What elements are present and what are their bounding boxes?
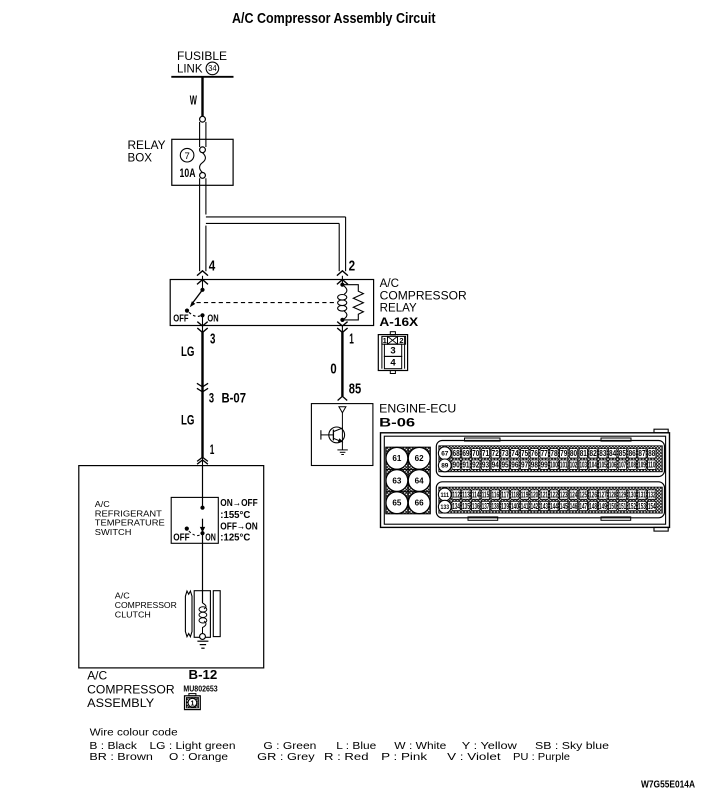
ECU pin 89 bbox=[438, 459, 451, 472]
svg-text:144: 144 bbox=[550, 502, 558, 511]
ECU pin 93 bbox=[481, 460, 489, 469]
ECU pin 115 bbox=[481, 490, 489, 499]
ECU pin 72 bbox=[491, 449, 499, 458]
connector A-16X pinout bbox=[390, 332, 395, 335]
ECU pin 136 bbox=[472, 501, 480, 510]
svg-text:106: 106 bbox=[609, 461, 617, 470]
svg-text:94: 94 bbox=[492, 461, 500, 470]
ECU pin 119 bbox=[520, 490, 528, 499]
svg-text:107: 107 bbox=[619, 461, 627, 470]
terminal arrow into ECU bbox=[338, 396, 348, 400]
ECU pin 139 bbox=[501, 501, 509, 510]
svg-text:153: 153 bbox=[638, 502, 646, 511]
svg-text:73: 73 bbox=[501, 449, 509, 458]
ECU pin 122 bbox=[550, 490, 558, 499]
svg-text:131: 131 bbox=[638, 491, 646, 500]
svg-text:134: 134 bbox=[452, 502, 460, 511]
ECU pin 131 bbox=[638, 490, 646, 499]
ECU pin 123 bbox=[560, 490, 568, 499]
svg-text:LG: LG bbox=[181, 343, 195, 359]
ECU pin 112 bbox=[452, 490, 460, 499]
svg-text:SWITCH: SWITCH bbox=[95, 527, 132, 537]
svg-text:146: 146 bbox=[570, 502, 578, 511]
svg-text:62: 62 bbox=[415, 454, 425, 463]
ECU pin 95 bbox=[501, 460, 509, 469]
svg-text:151: 151 bbox=[619, 502, 627, 511]
ECU pin 87 bbox=[638, 449, 646, 458]
ECU pin 108 bbox=[628, 460, 636, 469]
svg-text:CLUTCH: CLUTCH bbox=[115, 610, 151, 620]
wire O from relay pin 1 to ECU bbox=[341, 332, 343, 396]
relay switch dashed OFF-ON throw bbox=[189, 312, 201, 316]
wire W from fusible link bbox=[201, 77, 203, 117]
svg-text:0: 0 bbox=[330, 361, 336, 377]
ECU pin 107 bbox=[618, 460, 626, 469]
svg-text:108: 108 bbox=[628, 461, 636, 470]
svg-text:O : Orange: O : Orange bbox=[169, 752, 229, 763]
fusible link 34 circle bbox=[206, 62, 219, 75]
ECU pin 110 bbox=[648, 460, 656, 469]
svg-text:G : Green: G : Green bbox=[263, 741, 316, 752]
ECU pin 145 bbox=[560, 501, 568, 510]
ECU pin 138 bbox=[491, 501, 499, 510]
svg-text:89: 89 bbox=[441, 463, 448, 470]
relay coil bbox=[340, 283, 344, 287]
ECU pin 128 bbox=[608, 490, 616, 499]
ECU pin 135 bbox=[462, 501, 470, 510]
svg-text:A-16X: A-16X bbox=[379, 315, 418, 329]
svg-text:70: 70 bbox=[472, 449, 480, 458]
svg-text:82: 82 bbox=[589, 449, 597, 458]
svg-text:119: 119 bbox=[521, 491, 529, 500]
ECU pin 130 bbox=[628, 490, 636, 499]
ECU pin 133 bbox=[438, 500, 451, 513]
A-16X blocked cell bbox=[388, 336, 398, 344]
svg-text:124: 124 bbox=[570, 491, 578, 500]
ECU pin 79 bbox=[560, 449, 568, 458]
ECU pin 142 bbox=[530, 501, 538, 510]
ECU pin 106 bbox=[608, 460, 616, 469]
svg-text:136: 136 bbox=[472, 502, 480, 511]
svg-text:76: 76 bbox=[531, 449, 539, 458]
ECU pin 64 bbox=[408, 470, 430, 492]
svg-text:FUSIBLE: FUSIBLE bbox=[177, 51, 227, 63]
ECU pin 127 bbox=[599, 490, 607, 499]
svg-text:ON: ON bbox=[207, 314, 218, 325]
wire pin 1 out of relay bbox=[341, 326, 343, 333]
svg-text:84: 84 bbox=[609, 449, 617, 458]
svg-text:W: W bbox=[190, 92, 198, 107]
svg-text:85: 85 bbox=[349, 381, 361, 398]
svg-text:86: 86 bbox=[629, 449, 637, 458]
ECU pin 65 bbox=[386, 492, 408, 514]
svg-text:112: 112 bbox=[452, 491, 460, 500]
ECU pin 76 bbox=[530, 449, 538, 458]
ECU pin 98 bbox=[530, 460, 538, 469]
svg-text:101: 101 bbox=[560, 461, 568, 470]
ECU pin 147 bbox=[579, 501, 587, 510]
svg-text:1: 1 bbox=[349, 332, 354, 348]
fusible link bus bar bbox=[171, 76, 233, 78]
svg-text:W7G55E014A: W7G55E014A bbox=[641, 778, 695, 790]
relay switch arm bbox=[191, 290, 202, 305]
svg-text:121: 121 bbox=[540, 491, 548, 500]
svg-text:66: 66 bbox=[415, 499, 425, 508]
ECU pin 99 bbox=[540, 460, 548, 469]
temp switch dashed throw bbox=[189, 531, 201, 536]
svg-text:99: 99 bbox=[541, 461, 549, 470]
svg-text:150: 150 bbox=[609, 502, 617, 511]
svg-text:Y : Yellow: Y : Yellow bbox=[462, 741, 518, 752]
svg-text:B-12: B-12 bbox=[189, 667, 218, 682]
svg-text:111: 111 bbox=[441, 492, 450, 499]
ECU pin 90 bbox=[452, 460, 460, 469]
svg-text:127: 127 bbox=[599, 491, 607, 500]
svg-text:100: 100 bbox=[550, 461, 558, 470]
ECU pin 77 bbox=[540, 449, 548, 458]
relay switch OFF contact bbox=[185, 309, 189, 313]
terminal arrow at relay pin 2 bbox=[337, 271, 348, 276]
svg-text:129: 129 bbox=[619, 491, 627, 500]
svg-text:93: 93 bbox=[482, 461, 490, 470]
svg-text:116: 116 bbox=[491, 491, 499, 500]
A-16X pin 1 cell bbox=[382, 336, 388, 344]
compressor clutch pulley (left) bbox=[185, 591, 192, 637]
ECU pin 75 bbox=[520, 449, 528, 458]
svg-text:110: 110 bbox=[648, 461, 656, 470]
svg-text:64: 64 bbox=[415, 476, 425, 485]
svg-text:81: 81 bbox=[580, 449, 588, 458]
fuse 10A bbox=[200, 147, 206, 153]
svg-text:154: 154 bbox=[648, 502, 656, 511]
svg-text:B-07: B-07 bbox=[222, 391, 247, 406]
svg-text:143: 143 bbox=[540, 502, 548, 511]
svg-text:104: 104 bbox=[589, 461, 597, 470]
svg-text:92: 92 bbox=[472, 461, 480, 470]
svg-text:R : Red: R : Red bbox=[324, 752, 369, 763]
svg-text:130: 130 bbox=[628, 491, 636, 500]
terminal arrow at relay pin 4 bbox=[197, 271, 208, 276]
svg-text:B-06: B-06 bbox=[379, 417, 415, 429]
svg-text:80: 80 bbox=[570, 449, 578, 458]
ECU pin 129 bbox=[618, 490, 626, 499]
ECU pin 125 bbox=[579, 490, 587, 499]
ECU pin 143 bbox=[540, 501, 548, 510]
ECU pin 146 bbox=[569, 501, 577, 510]
svg-text:145: 145 bbox=[560, 502, 568, 511]
svg-text:3: 3 bbox=[210, 331, 215, 347]
ECU pin 78 bbox=[550, 449, 558, 458]
ECU pin 150 bbox=[608, 501, 616, 510]
svg-text:3: 3 bbox=[209, 390, 214, 406]
A-16X pin 2 cell bbox=[398, 336, 406, 344]
svg-text:4: 4 bbox=[390, 358, 396, 369]
clutch terminal ring bbox=[200, 634, 206, 640]
svg-text:RELAY: RELAY bbox=[128, 140, 166, 152]
ECU pin 94 bbox=[491, 460, 499, 469]
svg-text:W : White: W : White bbox=[394, 741, 447, 752]
inline connector B-07 chevrons bbox=[197, 383, 208, 387]
svg-text:139: 139 bbox=[501, 502, 509, 511]
ECU pin 116 bbox=[491, 490, 499, 499]
ECU pin 100 bbox=[550, 460, 558, 469]
svg-text:97: 97 bbox=[521, 461, 528, 470]
wire from temp switch to clutch bbox=[202, 535, 204, 603]
svg-text:1: 1 bbox=[210, 441, 215, 457]
svg-text:85: 85 bbox=[619, 449, 627, 458]
ECU pin 102 bbox=[569, 460, 577, 469]
ECU pin 140 bbox=[511, 501, 519, 510]
svg-text:V : Violet: V : Violet bbox=[447, 752, 501, 763]
ECU pin 124 bbox=[569, 490, 577, 499]
svg-text:114: 114 bbox=[472, 491, 480, 500]
ECU pin 141 bbox=[520, 501, 528, 510]
ECU pin 67 bbox=[438, 447, 451, 460]
svg-text:A/C Compressor Assembly Circui: A/C Compressor Assembly Circuit bbox=[232, 11, 436, 27]
svg-text::155°C: :155°C bbox=[220, 509, 250, 521]
connector junction circle bbox=[200, 116, 206, 122]
svg-text:72: 72 bbox=[492, 449, 500, 458]
A/C compressor relay box A-16X bbox=[170, 280, 373, 326]
svg-text:4: 4 bbox=[209, 258, 216, 274]
ECU pin 104 bbox=[589, 460, 597, 469]
A/C compressor assembly box bbox=[79, 466, 264, 668]
svg-text:128: 128 bbox=[609, 491, 617, 500]
A-16X pin 4 cell bbox=[384, 356, 401, 368]
ECU pin 63 bbox=[386, 470, 408, 492]
wire (double line) from fuse to pin 4 bbox=[199, 178, 201, 271]
ECU connector strip 111-154 bbox=[436, 482, 664, 518]
part icon bbox=[189, 694, 196, 696]
ground in ECU bbox=[337, 449, 347, 451]
ECU pin 97 bbox=[520, 460, 528, 469]
svg-text:133: 133 bbox=[441, 504, 450, 511]
svg-text:ON: ON bbox=[205, 531, 216, 543]
ECU pin 114 bbox=[472, 490, 480, 499]
svg-text:90: 90 bbox=[453, 461, 461, 470]
dashed mechanical link to coil bbox=[197, 302, 337, 304]
svg-text::125°C: :125°C bbox=[220, 531, 250, 543]
A-16X pin 3 cell bbox=[384, 344, 401, 356]
svg-text:91: 91 bbox=[462, 461, 470, 470]
svg-text:7: 7 bbox=[184, 151, 189, 162]
svg-text:135: 135 bbox=[462, 502, 470, 511]
svg-text:148: 148 bbox=[589, 502, 597, 511]
svg-text:3: 3 bbox=[390, 345, 395, 356]
svg-text:L : Blue: L : Blue bbox=[336, 741, 377, 752]
ECU pin 61 bbox=[386, 447, 408, 469]
svg-text:117: 117 bbox=[501, 491, 509, 500]
svg-text:141: 141 bbox=[521, 502, 529, 511]
svg-text:67: 67 bbox=[441, 451, 448, 458]
temp switch OFF contact bbox=[185, 527, 189, 531]
svg-text:34: 34 bbox=[208, 64, 217, 73]
svg-text:B : Black: B : Black bbox=[89, 741, 138, 752]
temp switch ON contact bbox=[200, 531, 204, 535]
svg-text:ASSEMBLY: ASSEMBLY bbox=[87, 696, 154, 710]
svg-text:137: 137 bbox=[482, 502, 490, 511]
wire pin 3 out of relay bbox=[202, 326, 204, 333]
ECU pin 91 bbox=[462, 460, 470, 469]
relay box circled 7 bbox=[180, 148, 194, 162]
svg-text:142: 142 bbox=[531, 502, 539, 511]
svg-text:123: 123 bbox=[560, 491, 568, 500]
svg-text:122: 122 bbox=[550, 491, 558, 500]
svg-text:1: 1 bbox=[190, 700, 194, 707]
ECU pin 113 bbox=[462, 490, 470, 499]
svg-text:132: 132 bbox=[648, 491, 656, 500]
svg-text:63: 63 bbox=[392, 476, 402, 485]
svg-text:LG: LG bbox=[181, 412, 195, 428]
ECU pin 126 bbox=[589, 490, 597, 499]
svg-text:95: 95 bbox=[501, 461, 509, 470]
svg-text:152: 152 bbox=[628, 502, 636, 511]
svg-text:LINK: LINK bbox=[177, 64, 203, 76]
ECU pin 69 bbox=[462, 449, 470, 458]
svg-text:LG : Light green: LG : Light green bbox=[150, 741, 236, 752]
svg-text:147: 147 bbox=[579, 502, 587, 511]
ECU pin 66 bbox=[408, 492, 430, 514]
ECU pin 103 bbox=[579, 460, 587, 469]
ECU pin 74 bbox=[511, 449, 519, 458]
svg-text:149: 149 bbox=[599, 502, 607, 511]
ECU pin 134 bbox=[452, 501, 460, 510]
svg-text:71: 71 bbox=[482, 449, 490, 458]
ECU connector block outer housing bbox=[654, 429, 668, 433]
relay coil resistor (parallel) bbox=[342, 285, 363, 320]
temp switch throw arrow bbox=[202, 519, 204, 528]
svg-text:GR : Grey: GR : Grey bbox=[257, 752, 315, 763]
svg-text:A/C: A/C bbox=[95, 499, 110, 509]
svg-text:COMPRESSOR: COMPRESSOR bbox=[115, 600, 177, 610]
ECU pin 81 bbox=[579, 449, 587, 458]
ECU pin 153 bbox=[638, 501, 646, 510]
svg-text:61: 61 bbox=[392, 454, 402, 463]
svg-text:RELAY: RELAY bbox=[380, 303, 417, 315]
svg-text:2: 2 bbox=[349, 258, 356, 274]
svg-text:A/C: A/C bbox=[115, 591, 130, 601]
svg-text:A/C: A/C bbox=[87, 669, 107, 683]
ECU pin 149 bbox=[599, 501, 607, 510]
svg-text:P : Pink: P : Pink bbox=[381, 752, 428, 763]
svg-text:BR : Brown: BR : Brown bbox=[89, 752, 152, 763]
ECU pin 62 bbox=[408, 447, 430, 469]
svg-text:105: 105 bbox=[599, 461, 607, 470]
ECU pin 83 bbox=[599, 449, 607, 458]
ECU pin 109 bbox=[638, 460, 646, 469]
svg-text:SB : Sky blue: SB : Sky blue bbox=[535, 741, 610, 752]
svg-text:74: 74 bbox=[511, 449, 519, 458]
svg-text:115: 115 bbox=[482, 491, 490, 500]
transistor Q1 bbox=[329, 427, 345, 443]
ECU pin 132 bbox=[648, 490, 656, 499]
ECU pin 70 bbox=[472, 449, 480, 458]
ECU pin 82 bbox=[589, 449, 597, 458]
ECU pin 111 bbox=[438, 488, 451, 501]
ECU pin 96 bbox=[511, 460, 519, 469]
svg-text:79: 79 bbox=[560, 449, 568, 458]
ECU pin 120 bbox=[530, 490, 538, 499]
svg-text:77: 77 bbox=[541, 449, 548, 458]
assembly entry chevrons bbox=[197, 457, 208, 461]
ECU pin 68 bbox=[452, 449, 460, 458]
svg-text:ENGINE-ECU: ENGINE-ECU bbox=[379, 404, 456, 416]
compressor clutch coil housing bbox=[194, 591, 210, 638]
connector latch bumps bbox=[465, 438, 501, 441]
svg-text:109: 109 bbox=[638, 461, 646, 470]
svg-text:118: 118 bbox=[511, 491, 519, 500]
svg-text:87: 87 bbox=[638, 449, 645, 458]
refrigerant temperature switch box bbox=[171, 497, 218, 543]
temp switch top contact bbox=[200, 506, 204, 510]
wire LG from relay pin 3 bbox=[201, 332, 203, 457]
svg-text:103: 103 bbox=[579, 461, 587, 470]
svg-text:69: 69 bbox=[462, 449, 470, 458]
ECU input triangle bbox=[339, 407, 346, 413]
ECU connector strip 67-110 bbox=[436, 441, 664, 477]
svg-text:OFF: OFF bbox=[173, 314, 188, 325]
svg-text:113: 113 bbox=[462, 491, 470, 500]
svg-text:65: 65 bbox=[392, 499, 402, 508]
ECU pin 73 bbox=[501, 449, 509, 458]
svg-text:140: 140 bbox=[511, 502, 519, 511]
svg-text:102: 102 bbox=[570, 461, 578, 470]
relay switch contact from pin 4 bbox=[200, 288, 204, 292]
ECU pin 105 bbox=[599, 460, 607, 469]
svg-text:A/C: A/C bbox=[380, 278, 399, 290]
ECU pin 151 bbox=[618, 501, 626, 510]
ECU pin 137 bbox=[481, 501, 489, 510]
ECU pin 152 bbox=[628, 501, 636, 510]
ECU pin 121 bbox=[540, 490, 548, 499]
wire inside assembly (top) bbox=[202, 466, 204, 508]
svg-text:126: 126 bbox=[589, 491, 597, 500]
clutch right plate bbox=[213, 591, 220, 637]
svg-text:83: 83 bbox=[599, 449, 607, 458]
compressor clutch coil bbox=[203, 603, 206, 609]
relay switch ON contact bbox=[200, 313, 204, 317]
connector round-pin grid 61-66 bbox=[386, 447, 431, 514]
svg-text:75: 75 bbox=[521, 449, 529, 458]
svg-text:98: 98 bbox=[531, 461, 539, 470]
svg-text:78: 78 bbox=[550, 449, 558, 458]
svg-text:120: 120 bbox=[531, 491, 539, 500]
svg-text:68: 68 bbox=[453, 449, 461, 458]
svg-text:138: 138 bbox=[491, 502, 499, 511]
svg-text:10A: 10A bbox=[180, 168, 196, 180]
ECU pin 88 bbox=[648, 449, 656, 458]
ECU pin 84 bbox=[608, 449, 616, 458]
svg-text:96: 96 bbox=[511, 461, 519, 470]
ECU pin 85 bbox=[618, 449, 626, 458]
ECU pin 148 bbox=[589, 501, 597, 510]
ECU pin 80 bbox=[569, 449, 577, 458]
wire (double line) branch to pin 2 bbox=[206, 216, 346, 218]
ECU pin 86 bbox=[628, 449, 636, 458]
wire (double line) into relay box bbox=[199, 122, 201, 147]
ECU pin 154 bbox=[648, 501, 656, 510]
ECU pin 101 bbox=[560, 460, 568, 469]
ECU pin 117 bbox=[501, 490, 509, 499]
ground at clutch bbox=[197, 640, 208, 642]
svg-text:MU802653: MU802653 bbox=[183, 685, 218, 694]
svg-text:COMPRESSOR: COMPRESSOR bbox=[87, 682, 175, 696]
svg-text:88: 88 bbox=[648, 449, 656, 458]
svg-text:OFF: OFF bbox=[173, 531, 190, 543]
svg-text:125: 125 bbox=[579, 491, 587, 500]
relay box bbox=[172, 139, 233, 185]
ECU pin 92 bbox=[472, 460, 480, 469]
